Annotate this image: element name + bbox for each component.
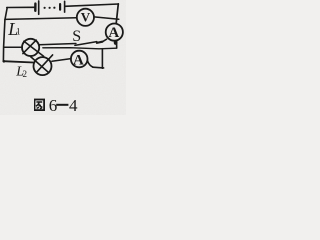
wire A2 left	[52, 59, 71, 62]
battery cell left long plate	[38, 1, 40, 14]
battery dots (more cells)	[44, 7, 56, 9]
caption text 6-4	[49, 96, 78, 115]
wire right-mid vertical	[101, 49, 103, 68]
wire L2 row left	[3, 61, 33, 62]
switch S blade	[75, 42, 97, 46]
wire top-left horizontal	[7, 6, 34, 8]
lamp L2 cross stroke 1	[31, 57, 49, 73]
wire left vertical	[3, 8, 7, 62]
wire bottom short horizontal	[93, 66, 104, 69]
lamp L2 circle	[34, 57, 52, 75]
lamp L1 cross stroke 2	[23, 40, 36, 54]
wire curved into A2	[87, 60, 93, 67]
wire contact to A1	[102, 39, 106, 42]
junction bottom-left corner	[3, 60, 6, 63]
caption glyph 图	[35, 100, 45, 111]
wire L1 row right to switch	[39, 44, 76, 45]
wire top-right horizontal	[65, 4, 119, 6]
ammeter A1 circle	[106, 23, 123, 40]
wire voltmeter row right	[94, 17, 119, 19]
wire A1 bottom stub	[116, 41, 118, 48]
ammeter A2 circle	[71, 51, 88, 68]
paper noise	[0, 0, 1, 1]
voltmeter U1 circle	[77, 9, 94, 26]
wire right vertical down to A1	[116, 4, 118, 24]
battery cell right short plate	[59, 4, 61, 10]
junction blob A1 bottom	[114, 40, 118, 45]
lamp L2 cross stroke 2	[36, 55, 52, 73]
wire long horizontal node	[43, 48, 117, 49]
lamp L1 cross stroke 1	[24, 41, 44, 56]
lamp L1 circle	[22, 39, 39, 56]
battery cell right long plate	[64, 1, 66, 12]
wire L1 row left	[4, 46, 22, 48]
switch S contact	[97, 42, 102, 43]
wire voltmeter row left	[5, 18, 77, 20]
battery cell left short plate	[34, 4, 37, 11]
